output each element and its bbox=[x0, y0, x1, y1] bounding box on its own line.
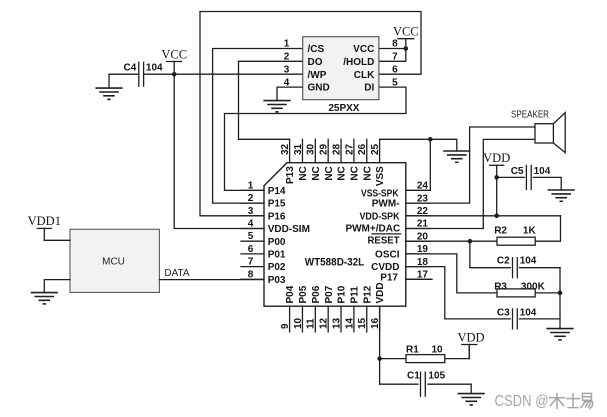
U2 pin 3 stub bbox=[241, 215, 264, 217]
svg-text:105: 105 bbox=[428, 370, 445, 381]
svg-text:R2: R2 bbox=[494, 226, 507, 237]
svg-text:NC: NC bbox=[350, 166, 361, 180]
svg-text:NC: NC bbox=[298, 166, 309, 180]
svg-text:MCU: MCU bbox=[102, 256, 125, 267]
wire RESET(U2 pin20) to R2 bbox=[406, 240, 497, 242]
svg-text:3: 3 bbox=[248, 206, 254, 217]
power VCC (flash supply node) bbox=[167, 61, 182, 63]
svg-text:18: 18 bbox=[417, 257, 429, 268]
svg-text:P13: P13 bbox=[285, 166, 296, 184]
svg-text:VDD: VDD bbox=[483, 151, 510, 165]
svg-text:21: 21 bbox=[417, 219, 429, 230]
U2 pin 8 stub bbox=[241, 278, 264, 280]
svg-text:P10: P10 bbox=[337, 285, 348, 303]
U2 pin 27 stub bbox=[353, 139, 355, 162]
U2 pin 28 stub bbox=[340, 139, 342, 162]
svg-text:PWM-: PWM- bbox=[372, 199, 400, 210]
svg-text:PWM+/DAC: PWM+/DAC bbox=[345, 223, 400, 234]
svg-text:1K: 1K bbox=[523, 226, 537, 237]
U2 pin 16 stub bbox=[379, 306, 381, 332]
svg-text:7: 7 bbox=[248, 257, 254, 268]
svg-text:12: 12 bbox=[319, 317, 330, 329]
wire PWM+(U2 pin21) to speaker - bbox=[406, 139, 535, 228]
svg-text:104: 104 bbox=[520, 255, 537, 266]
wire U1 GND pin 4 to ground bbox=[277, 87, 303, 101]
U2 pin 2 stub bbox=[241, 202, 264, 204]
svg-text:20: 20 bbox=[417, 231, 429, 242]
wire R2 right to VDD rail bbox=[535, 216, 560, 241]
svg-text:RESET: RESET bbox=[368, 236, 400, 247]
svg-text:11: 11 bbox=[306, 318, 317, 329]
ground G3 (VSS rail) bbox=[443, 150, 470, 152]
svg-text:DATA: DATA bbox=[164, 268, 190, 279]
svg-text:P02: P02 bbox=[268, 262, 286, 273]
svg-text:104: 104 bbox=[534, 166, 551, 177]
U2 pin 30 stub bbox=[314, 139, 316, 162]
svg-text:22: 22 bbox=[417, 206, 429, 217]
svg-text:C1: C1 bbox=[407, 370, 420, 381]
svg-text:VDD: VDD bbox=[457, 330, 484, 344]
svg-text:32: 32 bbox=[280, 143, 291, 155]
svg-text:VSS: VSS bbox=[375, 166, 386, 186]
svg-text:31: 31 bbox=[293, 143, 304, 155]
U2 pin 24 stub bbox=[406, 189, 431, 191]
svg-text:WT588D-32L: WT588D-32L bbox=[305, 256, 365, 268]
svg-text:VCC: VCC bbox=[393, 25, 419, 39]
wire C5 right to ground bbox=[533, 177, 561, 190]
U2 pin 21 stub bbox=[406, 228, 431, 230]
wire U1 /HOLD pin 7 to VCC bbox=[379, 49, 406, 62]
svg-text:DO: DO bbox=[308, 57, 323, 68]
U2 pin 25 stub bbox=[379, 139, 381, 162]
capacitor C1 plates bbox=[420, 372, 422, 396]
svg-text:P14: P14 bbox=[268, 186, 286, 197]
power VDD1 (MCU) bbox=[37, 227, 51, 229]
wire VSS(U2 pin25) to ground bbox=[380, 139, 457, 151]
svg-text:27: 27 bbox=[344, 143, 355, 155]
svg-text:VCC: VCC bbox=[161, 47, 187, 61]
U2 pin 7 stub bbox=[241, 266, 264, 268]
svg-text:NC: NC bbox=[311, 166, 322, 180]
svg-text:C3: C3 bbox=[497, 308, 510, 319]
U2 pin 14 stub bbox=[353, 306, 355, 332]
svg-text:30: 30 bbox=[306, 143, 317, 155]
svg-text:NC: NC bbox=[324, 166, 335, 180]
U2 pin 20 stub bbox=[406, 240, 431, 242]
wire C4 to ground bbox=[109, 74, 138, 88]
svg-text:1: 1 bbox=[284, 39, 290, 50]
capacitor C5 plates bbox=[525, 165, 527, 189]
svg-text:/CS: /CS bbox=[308, 44, 325, 55]
svg-text:4: 4 bbox=[284, 77, 290, 88]
svg-text:29: 29 bbox=[319, 143, 330, 155]
svg-text:14: 14 bbox=[344, 317, 355, 329]
svg-text:2: 2 bbox=[284, 52, 290, 63]
svg-text:/HOLD: /HOLD bbox=[343, 57, 374, 68]
svg-text:28: 28 bbox=[331, 143, 342, 155]
wire R1 right to VDD bbox=[445, 345, 470, 359]
svg-text:P07: P07 bbox=[324, 285, 335, 303]
svg-text:17: 17 bbox=[417, 270, 429, 281]
svg-text:25PXX: 25PXX bbox=[328, 103, 359, 114]
svg-text:24: 24 bbox=[417, 181, 429, 192]
capacitor C2 plates bbox=[512, 258, 514, 278]
U2 pin 15 stub bbox=[366, 306, 368, 332]
wire VSS-SPK(U2 pin24) riser bbox=[406, 139, 431, 190]
svg-text:CVDD: CVDD bbox=[371, 262, 399, 273]
U2 pin 5 stub bbox=[241, 240, 264, 242]
svg-text:2: 2 bbox=[248, 193, 254, 204]
power VDD (speaker supply) bbox=[490, 164, 504, 166]
svg-text:3: 3 bbox=[284, 64, 290, 75]
ground G6 (C1) bbox=[458, 393, 485, 395]
U2 pin 18 stub bbox=[406, 266, 431, 268]
svg-text:VDD-SPK: VDD-SPK bbox=[360, 212, 401, 223]
svg-text:23: 23 bbox=[417, 193, 429, 204]
svg-text:CLK: CLK bbox=[354, 70, 375, 81]
IC U3 MCU body bbox=[70, 229, 159, 292]
svg-text:P05: P05 bbox=[298, 285, 309, 303]
svg-text:C4: C4 bbox=[124, 63, 137, 74]
ground G5 (C2/R3/C3) bbox=[546, 328, 573, 330]
junction VDD-VDDSPK bbox=[494, 214, 499, 219]
IC U2 WT588D-32L body bbox=[264, 163, 406, 307]
svg-text:15: 15 bbox=[357, 317, 368, 329]
svg-text:DI: DI bbox=[364, 83, 374, 94]
svg-text:13: 13 bbox=[331, 317, 342, 329]
U2 pin 31 stub bbox=[301, 139, 303, 162]
svg-text:4: 4 bbox=[248, 219, 254, 230]
ground G1 (C4) bbox=[95, 87, 122, 89]
junction R3-ground rail bbox=[558, 291, 563, 296]
svg-text:104: 104 bbox=[520, 308, 537, 319]
resistor R2 bbox=[497, 237, 535, 245]
wire C1 left bbox=[380, 383, 418, 385]
svg-text:NC: NC bbox=[362, 166, 373, 180]
svg-text:10: 10 bbox=[432, 345, 444, 356]
wire VCC node to U2 VDD-SIM pin 4 bbox=[174, 74, 264, 228]
U2 pin 9 stub bbox=[289, 306, 291, 332]
wire RESET to C2 bbox=[470, 241, 510, 268]
U2 pin 19 stub bbox=[406, 253, 431, 255]
svg-text:10: 10 bbox=[293, 317, 304, 329]
U2 pin 29 stub bbox=[327, 139, 329, 162]
wire C1 right to ground bbox=[428, 384, 471, 393]
IC U1 25PXX body bbox=[303, 37, 379, 100]
svg-text:NC: NC bbox=[337, 166, 348, 180]
wire DATA MCU to P03(U2 pin8) bbox=[159, 279, 264, 281]
junction RESET node bbox=[468, 239, 473, 244]
svg-text:VDD1: VDD1 bbox=[28, 214, 61, 228]
ground G2 (U1 GND) bbox=[263, 100, 290, 102]
U2 pin 22 stub bbox=[406, 215, 431, 217]
U2 pin 13 stub bbox=[340, 306, 342, 332]
svg-text:P15: P15 bbox=[268, 199, 286, 210]
U2 pin 32 stub bbox=[289, 139, 291, 162]
wire DO(U1 pin2) to P13(U2 pin32) bbox=[239, 61, 303, 139]
svg-text:300K: 300K bbox=[521, 281, 546, 292]
svg-text:P11: P11 bbox=[350, 286, 361, 304]
junction VDD-C5 bbox=[494, 175, 499, 180]
capacitor C4 plates bbox=[138, 62, 140, 86]
svg-text:P17: P17 bbox=[380, 273, 398, 284]
wire VCC node to U1 /WP pin 3 bbox=[144, 73, 302, 75]
svg-text:5: 5 bbox=[248, 231, 254, 242]
svg-text:C2: C2 bbox=[497, 255, 510, 266]
wire VDD1 to MCU bbox=[44, 239, 70, 241]
ground G7 (MCU) bbox=[31, 292, 58, 294]
svg-text:P04: P04 bbox=[285, 285, 296, 303]
svg-text:P01: P01 bbox=[268, 250, 286, 261]
U2 pin 23 stub bbox=[406, 202, 431, 204]
resistor R3 bbox=[497, 289, 535, 297]
U2 pin 6 stub bbox=[241, 253, 264, 255]
svg-text:C5: C5 bbox=[511, 166, 524, 177]
svg-text:1: 1 bbox=[248, 180, 254, 191]
svg-text:P00: P00 bbox=[268, 237, 286, 248]
svg-text:P12: P12 bbox=[362, 285, 373, 303]
speaker LS1 bbox=[535, 124, 553, 143]
svg-text:25: 25 bbox=[370, 143, 381, 155]
capacitor C3 plates bbox=[512, 309, 514, 329]
U2 pin 17 stub bbox=[406, 278, 431, 280]
wire PWM-(U2 pin23) to speaker + bbox=[406, 127, 535, 203]
resistor R1 bbox=[406, 355, 445, 363]
wire R3 right bbox=[535, 292, 560, 294]
svg-text:5: 5 bbox=[392, 77, 398, 88]
wire MCU to ground bbox=[44, 280, 70, 293]
svg-text:GND: GND bbox=[308, 83, 330, 94]
wire CLK(U1 pin6) over top to P16(U2 pin3) bbox=[200, 12, 421, 216]
U2 pin 1 stub bbox=[241, 189, 264, 191]
U2 pin 26 stub bbox=[366, 139, 368, 162]
wire P17(U2 pin17) stub bbox=[406, 278, 432, 280]
svg-text:P03: P03 bbox=[268, 275, 286, 286]
svg-text:OSCI: OSCI bbox=[375, 250, 400, 261]
svg-text:16: 16 bbox=[370, 317, 381, 329]
svg-text:26: 26 bbox=[357, 143, 368, 155]
wire C5 left bbox=[497, 176, 525, 178]
svg-text:P06: P06 bbox=[311, 285, 322, 303]
svg-text:VCC: VCC bbox=[353, 44, 374, 55]
svg-text:6: 6 bbox=[392, 64, 398, 75]
junction VCC at U1 pin 8 bbox=[404, 46, 409, 51]
svg-text:6: 6 bbox=[248, 244, 254, 255]
svg-text:104: 104 bbox=[146, 63, 163, 74]
svg-text:R1: R1 bbox=[406, 345, 419, 356]
U2 pin 10 stub bbox=[301, 306, 303, 332]
wire OSCI(U2 pin19) to R3 bbox=[406, 254, 497, 293]
U2 pin 11 stub bbox=[314, 306, 316, 332]
wire U1 VCC pin 8 bbox=[379, 48, 406, 50]
wire VDD-SPK(U2 pin22) rail bbox=[406, 215, 561, 217]
wire /CS(U1 pin1) to P15(U2 pin2) bbox=[213, 49, 303, 204]
junction R1/C1 node bbox=[377, 356, 382, 361]
wire CVDD(U2 pin18) to C3 bbox=[406, 267, 511, 319]
wire VDD pin16 net bbox=[380, 306, 406, 384]
wire C3 right bbox=[520, 318, 561, 320]
svg-text:VDD: VDD bbox=[375, 282, 386, 303]
ground G4 (C5) bbox=[548, 189, 575, 191]
svg-text:CSDN @: CSDN @ bbox=[495, 393, 549, 410]
U2 pin 4 stub bbox=[241, 228, 264, 230]
svg-text:VDD-SIM: VDD-SIM bbox=[268, 224, 310, 235]
junction VCC node bbox=[172, 72, 177, 77]
svg-text:8: 8 bbox=[248, 269, 254, 280]
svg-text:19: 19 bbox=[417, 244, 429, 255]
power VCC (U1 pin 8) bbox=[398, 38, 414, 40]
svg-text:R3: R3 bbox=[494, 281, 507, 292]
svg-text:/WP: /WP bbox=[308, 70, 327, 81]
wire C2 right bbox=[520, 267, 561, 269]
svg-text:8: 8 bbox=[392, 39, 398, 50]
U2 pin 12 stub bbox=[327, 306, 329, 332]
power VDD (R1) bbox=[462, 344, 477, 346]
wire DI(U1 pin5) to P14(U2 pin1) bbox=[225, 87, 407, 190]
svg-text:SPEAKER: SPEAKER bbox=[511, 110, 549, 121]
svg-text:7: 7 bbox=[392, 52, 398, 63]
wire right ground rail bbox=[559, 268, 561, 329]
svg-text:9: 9 bbox=[280, 323, 291, 329]
svg-text:P16: P16 bbox=[268, 211, 286, 222]
junction VSS rail bbox=[428, 137, 433, 142]
